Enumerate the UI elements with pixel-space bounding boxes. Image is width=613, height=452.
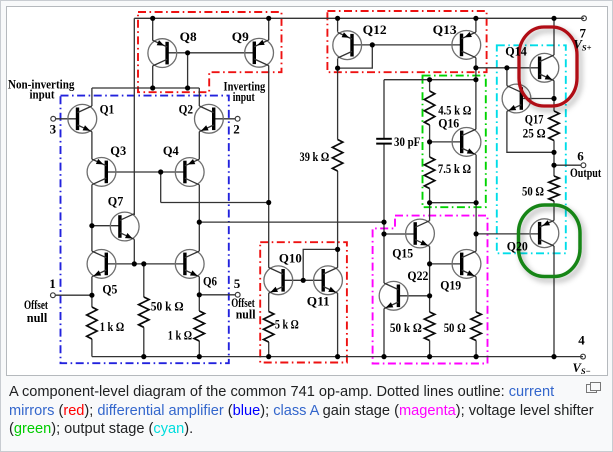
resistor R10 50ohm output (549, 176, 559, 201)
wire Q8 collector to bus (152, 66, 154, 88)
svg-text:1 k Ω: 1 k Ω (100, 319, 124, 334)
pin 3 terminal (51, 116, 56, 121)
wire Q5 Q6 base link (106, 263, 185, 265)
transistor Q17 (502, 84, 531, 113)
wire left supply vertical to Q7 collector (133, 18, 135, 215)
svg-text:4.5 k Ω: 4.5 k Ω (438, 103, 471, 118)
wire 4.5k to 7.5k junction (429, 125, 431, 157)
transistor Q16 (452, 127, 481, 156)
wire Q10 collector up to node A (268, 203, 270, 268)
svg-text:5 k Ω: 5 k Ω (275, 317, 299, 332)
wire Q8 Q9 base link (167, 52, 255, 54)
svg-text:Output: Output (570, 165, 602, 180)
wire Q14 collector to top rail (553, 18, 555, 55)
wire 50ohm magenta bottom lead (475, 341, 477, 357)
transistor Q11 (314, 266, 343, 295)
wire Q10 emitter down to 5k (268, 293, 270, 311)
resistor R11 50k magenta (424, 312, 434, 341)
svg-text:null: null (236, 307, 256, 322)
wire Q6 emitter down to pin5 node (198, 277, 200, 311)
svg-text:Q8: Q8 (180, 29, 197, 44)
wire B Q4 collector to cap node (199, 221, 384, 223)
svg-text:Q16: Q16 (438, 116, 459, 131)
svg-text:null: null (27, 310, 48, 325)
transistor Q8 (148, 39, 177, 68)
wire Q9 emitter to top rail (268, 18, 270, 40)
wire 1k left bottom lead (91, 339, 93, 357)
wire Q3 Q4 base link (106, 171, 185, 173)
wire Q22 base (398, 295, 429, 297)
transistor Q22 (379, 281, 408, 310)
wire Q19 base (430, 263, 462, 265)
svg-text:7.5 k Ω: 7.5 k Ω (438, 161, 471, 176)
wire Q13 node to Q14 base (476, 67, 540, 69)
wire Q16 emitter down to Q19 collector (475, 155, 477, 251)
wire pin1 offset null (55, 294, 92, 296)
differential amplifier outline (blue) (61, 96, 229, 364)
wire Q10 Q11 base link (283, 279, 323, 281)
svg-text:VS−: VS− (573, 361, 591, 375)
wire node to 4.5k and cap branch (384, 79, 476, 81)
transistor Q1 (68, 104, 97, 133)
svg-text:Q15: Q15 (392, 246, 413, 261)
current mirror outline (red) around Q10 Q11 (260, 242, 347, 362)
svg-text:25 Ω: 25 Ω (523, 126, 546, 141)
wire 7.5k bottom to Q16 emitter chain (430, 202, 477, 204)
svg-text:Q19: Q19 (440, 278, 461, 293)
wire Q15 base (384, 233, 415, 235)
wire Q13 collector down to Q16 chain (475, 58, 477, 129)
svg-text:3: 3 (50, 122, 57, 137)
svg-text:Q5: Q5 (102, 282, 117, 297)
wire Q2 collector to bus (198, 88, 200, 106)
wire 1k right bottom lead (198, 341, 200, 357)
pin 7 terminal (582, 16, 587, 21)
svg-text:Q1: Q1 (100, 102, 115, 117)
svg-text:39 k Ω: 39 k Ω (300, 149, 330, 164)
current mirror outline (red) around Q8 Q9 (138, 12, 282, 92)
wire 50k input bottom lead (143, 327, 145, 356)
svg-text:Q22: Q22 (407, 268, 428, 283)
transistor Q19 (452, 250, 481, 279)
wire Q12 chain top (337, 18, 339, 32)
wire Q12 Q13 base link (351, 44, 462, 46)
wire V_S+ top rail (134, 17, 584, 19)
wire Q4 collector down right chain (198, 185, 200, 251)
pin 6 terminal (581, 163, 586, 168)
svg-text:6: 6 (577, 149, 584, 164)
wire pin6 output (554, 164, 581, 166)
wire pin3 to Q1 base (55, 118, 77, 120)
wire Q3 collector down left chain (91, 185, 93, 251)
capacitor C1 30pF (376, 139, 392, 144)
svg-text:Q7: Q7 (108, 194, 124, 209)
wire 7.5k bottom lead (429, 189, 431, 203)
wire Q15 collector up to 7.5k node (429, 203, 431, 221)
transistor Q7 (110, 212, 139, 241)
wire Q13 chain top (475, 18, 477, 32)
output stage outline (cyan) (497, 45, 566, 253)
class A gain stage outline (magenta) (373, 216, 488, 364)
svg-text:Q10: Q10 (279, 251, 302, 266)
resistor R4 5k (264, 312, 274, 343)
wire Q14 emitter down to Q17 base node (553, 81, 555, 111)
transistor Q14 (530, 53, 559, 82)
wire bottom V_S- rail (92, 356, 583, 358)
resistor R7 4.5k (424, 91, 434, 125)
resistor R9 25ohm (549, 111, 559, 141)
red ellipse highlight around Q14 (519, 27, 577, 106)
transistor Q12 (333, 31, 362, 60)
transistor Q2 (195, 104, 224, 133)
resistor R12 50ohm magenta (471, 312, 481, 341)
transistor Q10 (264, 266, 293, 295)
transistor Q4 (175, 158, 204, 187)
pin 1 terminal (51, 293, 56, 298)
wire 50k magenta bottom lead (429, 341, 431, 357)
wire pin5 offset null (199, 294, 235, 296)
wire Q11 emitter to bottom rail (337, 293, 339, 357)
svg-text:2: 2 (233, 122, 240, 137)
svg-text:Q12: Q12 (363, 22, 387, 37)
wire Q17 emitter down and right to output branch (507, 111, 554, 152)
wire Q22 collector up to Q15 base node (383, 234, 385, 283)
wire Q20 collector down to bottom rail (553, 246, 555, 357)
svg-text:Q17: Q17 (525, 111, 544, 126)
resistor R3 50k input (139, 297, 149, 327)
wire 50ohm output bottom to Q20 emitter (553, 201, 555, 220)
current mirror outline (red) around Q12 Q13 (327, 11, 486, 72)
wire 50k top lead to base rail (143, 264, 145, 297)
wire Q1 collector to bus (91, 88, 93, 106)
svg-text:30 pF: 30 pF (394, 134, 420, 149)
wire base junction down to bus (187, 53, 189, 88)
svg-text:1: 1 (49, 276, 56, 291)
svg-text:Q4: Q4 (163, 143, 179, 158)
wire 39k bottom to Q11 collector (337, 171, 339, 268)
wire cap top lead (383, 80, 385, 138)
pin 2 terminal (235, 116, 240, 121)
resistor R5 39k (332, 140, 342, 172)
wire Q17 base (521, 98, 554, 100)
svg-text:Q20: Q20 (507, 239, 528, 254)
transistor Q15 (406, 219, 435, 248)
svg-text:Q6: Q6 (203, 274, 217, 289)
transistor Q3 (87, 158, 116, 187)
wire Q15 emitter down to 50k (429, 246, 431, 312)
wire cap node down to Q15 base node (383, 222, 385, 234)
svg-text:1 k Ω: 1 k Ω (168, 328, 192, 343)
wire pin2 to Q2 base (214, 118, 236, 120)
svg-text:Q11: Q11 (307, 294, 330, 309)
svg-text:Q13: Q13 (433, 22, 458, 37)
green ellipse highlight around Q20 (519, 205, 581, 277)
wire Q17 collector up to Q14 base wire (506, 68, 508, 86)
pin 5 terminal (235, 292, 240, 297)
wire cap bottom lead to wire B (383, 144, 385, 222)
resistor R8 7.5k (424, 157, 434, 189)
wire Q16 base (430, 141, 462, 143)
transistor Q9 (245, 38, 274, 67)
transistor Q5 (87, 250, 116, 279)
wire Q19 emitter down to 50ohm (475, 277, 477, 312)
svg-text:Q14: Q14 (505, 44, 527, 59)
svg-text:input: input (30, 86, 56, 101)
wire Q8 emitter to top rail (152, 18, 154, 40)
svg-text:50 k Ω: 50 k Ω (390, 320, 422, 335)
wire Q2 emitter to Q4 emitter (198, 132, 200, 160)
svg-text:Q2: Q2 (179, 102, 193, 117)
wire Q10 base tie over to Q11 collector (303, 249, 337, 280)
wire Q5 emitter down to pin1 node (91, 277, 93, 307)
wire Q7 emitter down to base rail (133, 239, 135, 264)
svg-text:Q9: Q9 (232, 29, 249, 44)
wire Q9 collector down to node A (268, 66, 270, 203)
wire Q22 emitter to bottom rail (383, 309, 385, 357)
wire Q7 base to left chain (92, 225, 120, 227)
svg-text:50 Ω: 50 Ω (444, 320, 466, 335)
wire Q3 Q4 bases down to node A (160, 172, 162, 203)
svg-text:4: 4 (578, 333, 585, 348)
svg-text:50 Ω: 50 Ω (522, 183, 544, 198)
svg-text:5: 5 (234, 276, 241, 291)
svg-text:Q3: Q3 (110, 143, 126, 158)
wire Q19 collector node to Q20 base (476, 233, 539, 235)
transistor Q6 (175, 250, 204, 279)
resistor R2 1k right (194, 311, 204, 341)
transistor Q20 (530, 219, 559, 248)
wire collector bus Q1 Q2 (92, 87, 199, 89)
svg-text:50 k Ω: 50 k Ω (151, 299, 184, 314)
wire 25ohm bottom to output node (553, 141, 555, 177)
wire node A horizontal (161, 202, 269, 204)
wire 4.5k top lead (429, 80, 431, 91)
resistor R1 1k left (87, 307, 97, 339)
pin 4 terminal (581, 354, 586, 359)
wire 5k bottom lead (268, 342, 270, 357)
wire Q12 collector down to 39k (337, 59, 339, 140)
wire Q12 base-collector tie (338, 45, 373, 68)
voltage level shifter outline (green) (423, 76, 486, 208)
transistor Q13 (452, 31, 481, 60)
wire Q1 emitter to Q3 emitter (91, 132, 93, 160)
svg-text:input: input (233, 89, 255, 104)
